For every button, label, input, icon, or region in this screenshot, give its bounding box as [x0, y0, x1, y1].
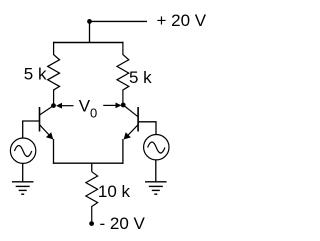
wire: V2 to ground: [155, 160, 157, 182]
resistor RC1 5k (left): [48, 42, 60, 106]
V0 right arrow: [103, 104, 116, 106]
resistor RE 10k: [86, 172, 98, 222]
wire: V1 to ground: [22, 163, 24, 182]
node: supply junction dot: [87, 19, 92, 24]
transistor Q2 collector stroke: [123, 105, 138, 117]
wire: tail stub: [91, 163, 93, 172]
transistor Q1 (left NPN): base bar: [39, 107, 41, 132]
svg-text:0: 0: [90, 106, 97, 121]
AC source V2 sine wave: [148, 142, 165, 153]
svg-text:5 k: 5 k: [24, 65, 47, 84]
AC source V1 sine wave: [14, 146, 31, 157]
ground (left): [12, 182, 34, 194]
node A: left collector dot: [51, 103, 56, 108]
transistor Q1 emitter stroke with arrow: [40, 125, 53, 139]
AC source V2 (right): circle: [144, 135, 169, 160]
transistor Q2 emitter stroke with arrow: [124, 125, 138, 139]
svg-text:10 k: 10 k: [98, 182, 131, 201]
svg-text:V: V: [79, 97, 91, 116]
svg-text:+ 20 V: + 20 V: [157, 11, 207, 30]
node B: right collector dot: [121, 103, 126, 108]
wire: Q1 base lead: [23, 121, 40, 138]
node: -20V terminal dot: [89, 221, 94, 226]
wire: Q2 emitter down: [122, 139, 124, 164]
transistor Q2 (right NPN): base bar: [137, 107, 139, 132]
wire: Q1 emitter down: [53, 139, 55, 164]
wire: supply stub down to resistor bus: [89, 21, 91, 43]
V0 left arrow: [56, 103, 62, 109]
wire: emitter bus: [53, 162, 124, 164]
svg-text:- 20 V: - 20 V: [100, 214, 146, 233]
transistor Q1 collector stroke: [40, 106, 54, 115]
wire: collector resistor bus: [53, 42, 124, 44]
AC source V1 (left): circle: [10, 138, 35, 163]
wire: +20V supply rail: [90, 20, 148, 22]
resistor RC2 5k (right): [117, 42, 129, 105]
ground (right): [145, 182, 167, 194]
svg-text:5 k: 5 k: [129, 68, 152, 87]
wire: Q2 base lead: [138, 122, 156, 135]
